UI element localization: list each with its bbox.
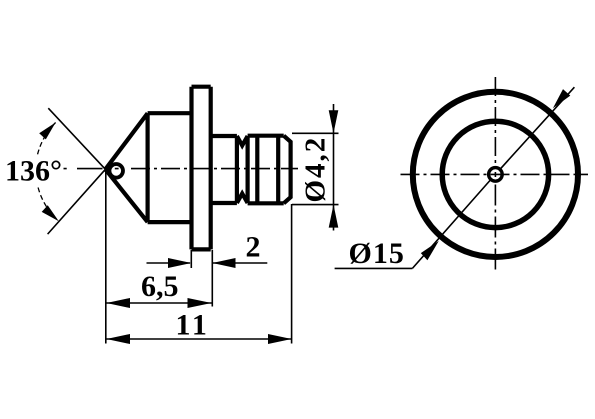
dim 6,5: line bbox=[106, 302, 211, 304]
angle dimension arc 136 lower bbox=[38, 188, 59, 222]
dim 6,5 arrow left bbox=[106, 298, 130, 308]
apex vertical extension line bbox=[105, 172, 107, 344]
arc arrow lower bbox=[42, 205, 59, 221]
d15 leader diagonal bbox=[412, 87, 574, 268]
thread boundary C bbox=[255, 136, 259, 204]
dim d4,2 vertical line bbox=[333, 104, 335, 231]
end cylinder edges bbox=[248, 136, 284, 204]
dim 2: extension lines bbox=[191, 250, 212, 307]
front view vertical centerline bbox=[494, 77, 496, 270]
arc arrow upper bbox=[39, 123, 55, 140]
dim 6,5 arrow right bbox=[188, 298, 212, 308]
dim d4,2 arrow top (points down) bbox=[329, 110, 339, 133]
svg-text:2: 2 bbox=[246, 231, 261, 264]
d15 arrow lower (points up-right at circle) bbox=[421, 241, 439, 260]
cone angle extension line upper bbox=[48, 108, 105, 169]
svg-text:Ø15: Ø15 bbox=[349, 237, 405, 270]
part outline: cone bbox=[105, 87, 290, 250]
side view centerline bbox=[64, 168, 299, 170]
cone base edge bbox=[146, 113, 150, 222]
angle dimension arc 136 bbox=[37, 123, 55, 156]
dim d4,2 extension lines bbox=[292, 133, 339, 204]
dim 2 arrow left (points right) bbox=[168, 258, 191, 268]
groove wall A bbox=[235, 136, 239, 203]
chamfer slants and end face bbox=[284, 136, 291, 204]
dim 11 arrow right bbox=[268, 334, 292, 344]
dim 11 arrow left bbox=[106, 334, 130, 344]
d15 leader horizontal bbox=[335, 267, 413, 269]
flange bbox=[192, 87, 211, 250]
front view outer circle bbox=[413, 92, 578, 257]
groove wall B bbox=[246, 136, 250, 203]
dim d4,2 arrow bottom (points up) bbox=[329, 205, 339, 228]
svg-text:11: 11 bbox=[176, 309, 210, 342]
dim 2 arrow right (points left) bbox=[212, 258, 235, 268]
groove V notches bbox=[237, 136, 248, 203]
body cylinder bbox=[148, 113, 192, 222]
neck cylinder bbox=[211, 136, 237, 203]
front view tip circle bbox=[489, 168, 503, 182]
chamfer edge bbox=[276, 137, 280, 203]
tip radius circle at apex bbox=[109, 164, 123, 178]
dim 11 right extension line bbox=[291, 204, 293, 344]
svg-text:136°: 136° bbox=[5, 155, 62, 188]
cone angle extension line lower bbox=[48, 169, 106, 234]
svg-text:Ø4,2: Ø4,2 bbox=[300, 136, 332, 203]
d15 arrow upper (points down-left at circle) bbox=[553, 89, 570, 108]
svg-text:6,5: 6,5 bbox=[141, 270, 179, 303]
dim 2: lines bbox=[147, 262, 268, 264]
dim 11: line bbox=[106, 338, 291, 340]
front view horizontal centerline bbox=[401, 173, 589, 175]
front view inner circle bbox=[442, 121, 548, 227]
